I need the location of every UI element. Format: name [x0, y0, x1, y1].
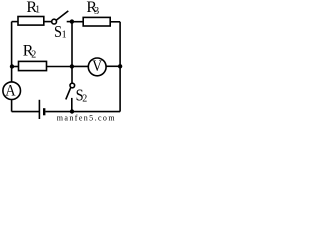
node junction middle (R2/voltmeter/S2 branch) [70, 64, 74, 68]
node junction right (voltmeter to right edge) [118, 64, 122, 68]
wire middle junction to voltmeter [72, 65, 88, 67]
ammeter A [3, 82, 21, 100]
label A [5, 82, 16, 99]
switch S2 [66, 83, 75, 99]
node junction bottom (S2 branch to bottom wire) [70, 109, 74, 113]
wire middle vertical to S2 [71, 66, 73, 83]
wire S2 lower vertical [71, 98, 73, 112]
label S2 [76, 86, 88, 105]
wire top-left segment [12, 21, 18, 23]
resistor R3 [83, 17, 110, 26]
label S1 [54, 22, 67, 41]
svg-text:2: 2 [82, 93, 87, 104]
svg-text:3: 3 [94, 6, 99, 17]
wire R3 to right edge [110, 21, 120, 23]
svg-text:1: 1 [62, 30, 67, 41]
label R2 [23, 43, 36, 61]
label R3 [86, 0, 99, 17]
svg-text:manfen5.com: manfen5.com [57, 113, 116, 122]
wire left vertical to R2 [12, 66, 19, 68]
wire R1 to S1 [44, 21, 52, 23]
label V [92, 58, 102, 75]
wire left vertical lower [11, 99, 13, 111]
wire voltmeter to right edge [106, 65, 120, 67]
battery short plate [43, 108, 45, 115]
label R1 [26, 0, 40, 16]
wire left vertical upper [11, 22, 13, 82]
node junction left (R2 branch to left edge) [10, 64, 14, 68]
wire bottom right [45, 111, 120, 113]
svg-text:V: V [92, 58, 102, 75]
resistor R2 [19, 61, 47, 70]
voltmeter V [88, 58, 106, 76]
battery long plate [38, 100, 40, 119]
resistor R1 [18, 17, 44, 26]
svg-text:1: 1 [35, 5, 40, 16]
wire R2 to middle junction [47, 66, 72, 68]
svg-text:2: 2 [31, 49, 36, 60]
svg-text:A: A [5, 82, 16, 99]
wire junction to R3 [72, 21, 84, 23]
node junction top (S1/R3/middle branch) [70, 19, 74, 23]
wire bottom left [12, 111, 40, 113]
wire middle vertical upper [71, 22, 73, 67]
wire right vertical [119, 22, 121, 112]
switch S1 [52, 11, 72, 24]
